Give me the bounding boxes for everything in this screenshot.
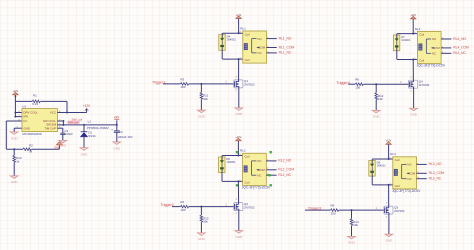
svg-text:100: 100 bbox=[180, 208, 185, 212]
svg-text:R6: R6 bbox=[355, 78, 359, 82]
wire coil top row (RL3) bbox=[372, 158, 392, 160]
resistor R1 0.22 bbox=[32, 100, 40, 103]
resistor R14 10k pulldown bbox=[351, 210, 353, 218]
wire coil bottom row (RL1) bbox=[222, 58, 242, 60]
svg-text:GND: GND bbox=[81, 152, 89, 156]
relay coil symbol (RL2) bbox=[244, 166, 247, 172]
relay RL1 JQC-3F bbox=[243, 31, 267, 63]
node gate junction (Q3) bbox=[351, 209, 353, 211]
wire trigger row (Q4) bbox=[348, 83, 355, 85]
svg-text:GND: GND bbox=[23, 126, 29, 130]
svg-text:100: 100 bbox=[331, 211, 336, 215]
transistor Q4 2N7002 bbox=[409, 80, 418, 88]
svg-text:+12V: +12V bbox=[83, 104, 91, 108]
svg-text:R3: R3 bbox=[180, 77, 184, 81]
svg-text:RL2: RL2 bbox=[240, 149, 246, 153]
relay contacts (RL1) bbox=[251, 39, 253, 53]
wire drain RL4-Q4 bbox=[412, 60, 414, 82]
svg-text:1N4001: 1N4001 bbox=[226, 160, 236, 164]
ground (R2 row end) bbox=[58, 145, 60, 149]
node coil bottom (RL4) bbox=[412, 59, 414, 61]
node gate junction (Q1) bbox=[200, 83, 202, 85]
svg-text:COM: COM bbox=[258, 168, 265, 172]
svg-text:Coil: Coil bbox=[244, 155, 249, 159]
svg-text:IPK: IPK bbox=[23, 115, 28, 119]
svg-text:NC: NC bbox=[408, 177, 412, 181]
wire +12V to coil (RL4) bbox=[412, 19, 414, 33]
svg-text:+5V: +5V bbox=[114, 115, 119, 119]
svg-text:PPI0504-150M2: PPI0504-150M2 bbox=[87, 126, 109, 130]
wire source to ground (Q2) bbox=[238, 209, 240, 231]
svg-text:RL4: RL4 bbox=[415, 27, 421, 31]
wire coil bottom row (RL2) bbox=[222, 180, 242, 182]
node output junction bbox=[116, 124, 118, 126]
svg-text:Coil: Coil bbox=[245, 58, 250, 62]
svg-text:2N7002: 2N7002 bbox=[244, 83, 255, 87]
wire source to ground (Q3) bbox=[388, 213, 390, 235]
svg-text:GND: GND bbox=[113, 146, 121, 150]
svg-text:COM: COM bbox=[409, 172, 416, 176]
wire R2 feedback row bbox=[6, 148, 23, 150]
diode D7 1N4001 flyback bbox=[393, 35, 399, 51]
svg-text:RL1_NO: RL1_NO bbox=[279, 36, 292, 40]
resistor R3 100 bbox=[181, 83, 189, 86]
node diode junction bbox=[83, 124, 85, 126]
relay RL2 JQC-3F bbox=[243, 153, 267, 185]
node coil top (RL3) bbox=[388, 158, 390, 160]
svg-text:10k: 10k bbox=[203, 97, 208, 101]
relay contacts (RL3) bbox=[401, 164, 403, 178]
wire coil bottom row (RL4) bbox=[397, 59, 417, 61]
node DRV COLL junction bbox=[14, 112, 16, 114]
svg-text:Coil: Coil bbox=[395, 184, 400, 188]
op-amp U1 MC34063 converter IC bbox=[22, 109, 57, 132]
svg-text:RL1_NC: RL1_NC bbox=[279, 51, 292, 55]
node VCC junction bbox=[66, 112, 68, 114]
svg-text:5k: 5k bbox=[29, 149, 33, 153]
svg-text:C2: C2 bbox=[119, 130, 123, 134]
svg-text:Coil: Coil bbox=[395, 158, 400, 162]
svg-text:0.22: 0.22 bbox=[32, 102, 38, 106]
node coil top (RL4) bbox=[412, 33, 414, 35]
wire coil top row (RL2) bbox=[222, 155, 242, 157]
ground (IC GND pin) bbox=[10, 132, 18, 135]
node coil bottom (RL2) bbox=[237, 180, 239, 182]
ground (Q2) bbox=[235, 231, 243, 234]
svg-text:10k: 10k bbox=[353, 223, 358, 227]
svg-text:RL1: RL1 bbox=[240, 26, 246, 30]
svg-text:100: 100 bbox=[180, 85, 185, 89]
node gate junction (Q2) bbox=[200, 206, 202, 208]
svg-text:SW_col: SW_col bbox=[68, 120, 79, 124]
resistor R11 10k pulldown bbox=[200, 84, 202, 92]
diode D5 1N4001 flyback bbox=[219, 157, 225, 173]
wire drain RL2-Q2 bbox=[237, 181, 239, 204]
relay coil symbol (RL1) bbox=[244, 44, 247, 50]
svg-text:RL4_NC: RL4_NC bbox=[453, 51, 466, 55]
svg-text:R2: R2 bbox=[29, 143, 33, 147]
svg-text:1N4001: 1N4001 bbox=[377, 163, 387, 167]
wire drain RL3-Q3 bbox=[388, 185, 390, 208]
ground (Q3) bbox=[385, 234, 393, 237]
wire coil top row (RL4) bbox=[397, 33, 417, 35]
wire GND pin bbox=[14, 127, 22, 129]
svg-text:JQC-3F(T73)-DC5V: JQC-3F(T73)-DC5V bbox=[417, 64, 446, 68]
wire DRV COLL pin bbox=[15, 112, 22, 114]
diode D6 1N4001 flyback bbox=[369, 160, 375, 176]
relay contacts (RL4) bbox=[425, 39, 427, 53]
svg-text:RL2_NC: RL2_NC bbox=[278, 173, 291, 177]
wire trigger row (Q3) bbox=[305, 209, 331, 211]
ground (R14) bbox=[348, 236, 356, 239]
svg-text:JQC-3F(T73)-DC5V: JQC-3F(T73)-DC5V bbox=[392, 189, 421, 193]
resistor R13 10k pulldown bbox=[200, 207, 202, 215]
svg-text:100: 100 bbox=[355, 86, 360, 90]
svg-text:L1: L1 bbox=[88, 119, 92, 123]
ground (R12) bbox=[372, 110, 380, 113]
wire coil top row (RL1) bbox=[222, 32, 242, 34]
wire trigger row (Q2) bbox=[172, 206, 180, 208]
svg-text:NC: NC bbox=[258, 51, 262, 55]
node R2/R10 junction bbox=[13, 148, 15, 150]
wire +12V to coil (RL1) bbox=[238, 19, 240, 34]
svg-text:1N4001: 1N4001 bbox=[401, 38, 411, 42]
resistor R2 5k bbox=[23, 148, 31, 151]
wire drain (Q4) bbox=[413, 81, 415, 83]
svg-text:VCC: VCC bbox=[50, 111, 56, 115]
wire drain (Q3) bbox=[388, 207, 390, 209]
svg-text:Coil: Coil bbox=[245, 32, 250, 36]
svg-text:SS34: SS34 bbox=[88, 134, 96, 138]
svg-text:U1: U1 bbox=[22, 105, 26, 109]
svg-text:2N7002: 2N7002 bbox=[419, 83, 430, 87]
power flag +5V output bbox=[116, 120, 118, 125]
relay contacts (RL2) bbox=[251, 161, 253, 175]
svg-text:NC: NC bbox=[432, 52, 436, 56]
svg-text:GND: GND bbox=[373, 115, 381, 119]
relay RL4 JQC-3F bbox=[417, 31, 441, 63]
wire +12V to coil (RL2) bbox=[237, 141, 239, 156]
ground (C2) bbox=[113, 142, 121, 145]
wire drain (Q2) bbox=[238, 203, 240, 205]
resistor R12 10k pulldown bbox=[375, 84, 377, 92]
svg-text:GND: GND bbox=[198, 237, 206, 241]
wire +12V to coil (RL3) bbox=[388, 145, 390, 160]
svg-text:RL2_NO: RL2_NO bbox=[278, 159, 291, 163]
wire source to ground (Q4) bbox=[413, 87, 415, 109]
node coil bottom (RL1) bbox=[238, 58, 240, 60]
svg-text:GND: GND bbox=[59, 144, 67, 148]
node coil bottom (RL3) bbox=[388, 184, 390, 186]
node IPK junction bbox=[14, 116, 16, 118]
relay coil symbol (RL4) bbox=[419, 44, 422, 50]
wire VCC row bbox=[57, 112, 86, 114]
svg-text:GND: GND bbox=[386, 238, 394, 242]
svg-text:MC34063ADR: MC34063ADR bbox=[22, 132, 42, 136]
ground (R10) bbox=[10, 176, 18, 179]
svg-text:10k: 10k bbox=[378, 97, 383, 101]
svg-text:TIM CAP: TIM CAP bbox=[44, 126, 56, 130]
svg-text:COM: COM bbox=[259, 46, 266, 50]
svg-text:GND: GND bbox=[235, 112, 243, 116]
svg-text:R5: R5 bbox=[331, 204, 335, 208]
svg-text:GND: GND bbox=[410, 113, 418, 117]
svg-text:GND: GND bbox=[348, 241, 356, 245]
svg-text:Trigger2: Trigger2 bbox=[161, 203, 174, 207]
svg-text:220pF: 220pF bbox=[65, 132, 73, 136]
ground (D1) bbox=[80, 148, 88, 151]
svg-text:RL3_NO: RL3_NO bbox=[429, 162, 442, 166]
relay RL3 JQC-3F bbox=[393, 157, 417, 189]
svg-text:GND: GND bbox=[11, 136, 19, 140]
svg-text:RL2_COM: RL2_COM bbox=[278, 168, 294, 172]
resistor R5 100 bbox=[331, 209, 339, 212]
diode D4 1N4001 flyback bbox=[219, 35, 225, 51]
svg-text:Coil: Coil bbox=[419, 33, 424, 37]
ground (Q1) bbox=[235, 108, 243, 111]
node coil top (RL2) bbox=[237, 155, 239, 157]
resistor R4 100 bbox=[181, 205, 189, 208]
resistor R6 100 bbox=[355, 83, 363, 86]
relay coil symbol (RL3) bbox=[394, 169, 397, 175]
svg-text:GND: GND bbox=[11, 180, 19, 184]
transistor Q3 2N7002 bbox=[384, 206, 393, 214]
capacitor C3 220pF timing bbox=[57, 127, 62, 129]
wire source to ground (Q1) bbox=[238, 86, 240, 108]
svg-text:R1: R1 bbox=[33, 94, 37, 98]
svg-text:RL3_COM: RL3_COM bbox=[429, 171, 445, 175]
svg-text:Coil: Coil bbox=[419, 58, 424, 62]
resistor R10 1k bbox=[13, 149, 15, 155]
wire IO- feedback bbox=[6, 120, 22, 122]
wire coil bottom row (RL3) bbox=[372, 184, 392, 186]
svg-text:Coil: Coil bbox=[244, 180, 249, 184]
svg-text:RL4_NO: RL4_NO bbox=[453, 37, 466, 41]
svg-text:RL3_NC: RL3_NC bbox=[429, 177, 442, 181]
svg-text:RL4_COM: RL4_COM bbox=[453, 46, 469, 50]
svg-text:JQC-3F(T73)-DC5V: JQC-3F(T73)-DC5V bbox=[242, 186, 271, 190]
diode D1 SS34 catch diode bbox=[83, 125, 85, 132]
node gate junction (Q4) bbox=[375, 83, 377, 85]
wire left rail to pins bbox=[14, 101, 16, 116]
svg-text:RL1_COM: RL1_COM bbox=[279, 45, 295, 49]
ground (Q4) bbox=[410, 108, 418, 111]
svg-text:RL3: RL3 bbox=[390, 152, 396, 156]
svg-text:2N7002: 2N7002 bbox=[244, 205, 255, 209]
svg-text:2N7002: 2N7002 bbox=[394, 209, 405, 213]
selection handles (RL2) bbox=[236, 151, 238, 153]
svg-text:Trigger4: Trigger4 bbox=[337, 81, 350, 85]
svg-text:10k: 10k bbox=[203, 220, 208, 224]
wire IPK pin bbox=[15, 116, 22, 118]
svg-text:GND: GND bbox=[198, 114, 206, 118]
wire trigger row (Q1) bbox=[163, 83, 180, 85]
wire top loop bbox=[15, 100, 32, 102]
svg-text:NC: NC bbox=[257, 173, 261, 177]
wire drain RL1-Q1 bbox=[238, 59, 240, 82]
wire drain (Q1) bbox=[238, 81, 240, 83]
svg-text:R4: R4 bbox=[180, 200, 184, 204]
ground (C3) bbox=[59, 140, 67, 143]
svg-text:COM: COM bbox=[433, 46, 440, 50]
capacitor C2 220uF 16V bbox=[116, 125, 118, 131]
wire SW bus bbox=[57, 120, 63, 122]
svg-text:GND: GND bbox=[235, 235, 243, 239]
transistor Q2 2N7002 bbox=[234, 203, 243, 211]
transistor Q1 2N7002 bbox=[234, 80, 243, 88]
ground (R13) bbox=[197, 233, 205, 236]
wire SW output row bbox=[63, 124, 116, 126]
svg-text:220uF 16V: 220uF 16V bbox=[118, 135, 133, 139]
svg-text:1N4001: 1N4001 bbox=[227, 38, 237, 42]
node coil top (RL1) bbox=[238, 32, 240, 34]
ground (R11) bbox=[197, 110, 205, 113]
svg-text:IO-: IO- bbox=[23, 119, 27, 123]
